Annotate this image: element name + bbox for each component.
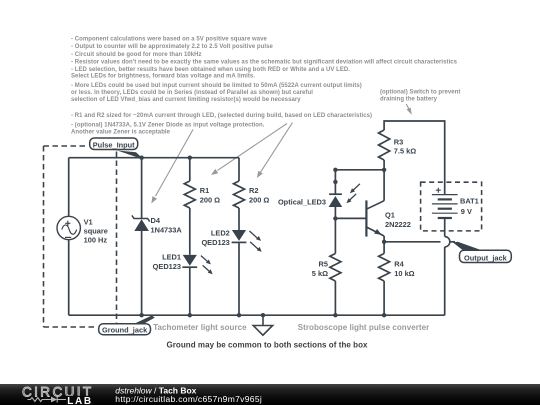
svg-text:Ground_jack: Ground_jack	[102, 325, 148, 334]
svg-text:Optical_LED3: Optical_LED3	[278, 197, 326, 206]
svg-text:- More LEDs could be used but: - More LEDs could be used but input curr…	[71, 83, 362, 89]
svg-text:or less. In theory, LEDs could: or less. In theory, LEDs could be in Ser…	[71, 90, 313, 96]
svg-text:R1: R1	[200, 186, 209, 195]
svg-text:BAT1: BAT1	[460, 197, 479, 206]
svg-text:200 Ω: 200 Ω	[200, 196, 220, 205]
svg-text:draining the battery: draining the battery	[380, 97, 438, 103]
svg-text:- Resistor values don't need t: - Resistor values don't need to be exact…	[71, 60, 458, 66]
svg-text:10 kΩ: 10 kΩ	[394, 269, 414, 278]
svg-text:Q1: Q1	[385, 211, 395, 220]
svg-text:- Component calculations were: - Component calculations were based on a…	[71, 36, 268, 42]
svg-text:QED123: QED123	[153, 262, 181, 271]
svg-text:R5: R5	[319, 259, 328, 268]
svg-text:http://circuitlab.com/c657n9m7: http://circuitlab.com/c657n9m7v965j	[115, 394, 262, 404]
svg-text:100 Hz: 100 Hz	[84, 235, 108, 244]
svg-text:Output_jack: Output_jack	[464, 253, 508, 262]
svg-text:Another value Zener is accepta: Another value Zener is acceptable	[71, 129, 171, 135]
svg-text:LED2: LED2	[211, 229, 230, 238]
svg-text:D4: D4	[151, 216, 161, 225]
svg-text:- Circuit should be good for m: - Circuit should be good for more than 1…	[71, 52, 202, 58]
svg-text:R3: R3	[394, 137, 403, 146]
svg-text:(optional) Switch to prevent: (optional) Switch to prevent	[380, 90, 460, 96]
svg-text:Tachometer light source: Tachometer light source	[153, 323, 247, 332]
svg-text:200 Ω: 200 Ω	[249, 196, 269, 205]
svg-text:- LED selection, better result: - LED selection, better results have bee…	[71, 67, 350, 73]
svg-text:selection of LED Vfwd_bias and: selection of LED Vfwd_bias and current l…	[71, 97, 301, 103]
svg-text:- R1 and R2 sized for ~20mA cu: - R1 and R2 sized for ~20mA current thro…	[71, 113, 372, 119]
svg-text:QED123: QED123	[201, 238, 229, 247]
svg-text:1N4733A: 1N4733A	[151, 225, 183, 234]
svg-text:V1: V1	[84, 218, 93, 227]
svg-text:LED1: LED1	[162, 253, 181, 262]
svg-text:2N2222: 2N2222	[385, 220, 411, 229]
svg-text:- (optional) 1N4733A, 5.1V Zen: - (optional) 1N4733A, 5.1V Zener Diode a…	[71, 123, 265, 129]
svg-text:Pulse_Input: Pulse_Input	[93, 141, 135, 150]
svg-text:LAB: LAB	[67, 396, 93, 405]
svg-text:7.5 kΩ: 7.5 kΩ	[394, 147, 416, 156]
svg-text:square: square	[84, 226, 108, 235]
svg-text:- Output to counter will be ap: - Output to counter will be approximatel…	[71, 44, 273, 50]
svg-text:Select LEDs for brightness, fo: Select LEDs for brightness, forward bias…	[71, 74, 255, 80]
svg-text:9 V: 9 V	[461, 207, 472, 216]
svg-text:Stroboscope light pulse conver: Stroboscope light pulse converter	[298, 323, 429, 332]
svg-text:5 kΩ: 5 kΩ	[312, 269, 328, 278]
svg-text:Ground may be common to both s: Ground may be common to both sections of…	[166, 341, 368, 350]
svg-text:R4: R4	[394, 259, 404, 268]
svg-text:R2: R2	[249, 186, 258, 195]
